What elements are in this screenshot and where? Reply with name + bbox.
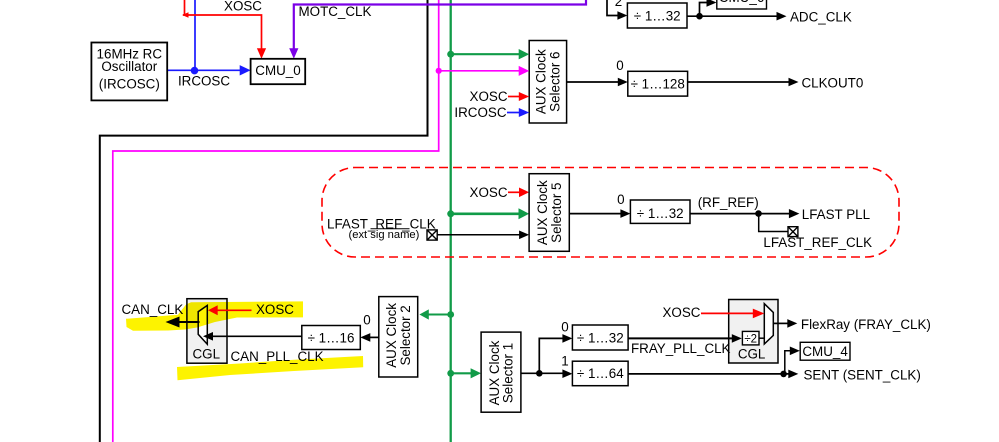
arrow blue into CMU_0 (240, 65, 251, 75)
selector box AUX Clock Selector 2 (379, 297, 418, 377)
wire ext to sel5 (437, 234, 520, 236)
svg-text:÷ 1…16: ÷ 1…16 (308, 331, 355, 346)
wire divider 1..64 out SENT (628, 373, 789, 375)
node junction sel1 output (536, 370, 543, 377)
divider box 1..32 lfast (630, 200, 690, 223)
node junction RF_REF (755, 210, 762, 217)
arrow ADC_CLK (777, 12, 787, 21)
svg-text:0: 0 (617, 192, 624, 207)
svg-text:Selector 2: Selector 2 (398, 305, 413, 365)
highlighter mark over CAN_CLK and XOSC (126, 301, 363, 380)
wire up to divider 1..32 (539, 338, 563, 373)
svg-text:(ext sig name): (ext sig name) (349, 229, 420, 241)
svg-text:÷ 1…128: ÷ 1…128 (631, 76, 685, 91)
svg-text:Selector 1: Selector 1 (501, 343, 516, 403)
selector box AUX Clock Selector 6 (529, 41, 566, 124)
svg-text:FlexRay (FRAY_CLK): FlexRay (FRAY_CLK) (801, 317, 931, 332)
wire: green vertical bus (450, 0, 452, 442)
svg-text:0: 0 (363, 312, 370, 327)
oscillator box 16MHz (91, 43, 167, 101)
svg-text:LFAST_REF_CLK: LFAST_REF_CLK (763, 235, 872, 250)
wire: blue IRCOSC vertical (194, 0, 196, 70)
svg-text:Oscillator: Oscillator (101, 59, 157, 74)
arrow SENT output (788, 370, 798, 379)
svg-text:÷ 1…32: ÷ 1…32 (634, 8, 681, 23)
svg-text:ADC_CLK: ADC_CLK (790, 10, 852, 25)
wire red XOSC into FRAY mux (701, 312, 755, 314)
arrow FlexRay output (787, 319, 797, 328)
arrow purple down into CMU_0 (289, 48, 298, 59)
wire magenta to sel6 (439, 70, 519, 72)
svg-text:CGL: CGL (738, 347, 766, 362)
wire divider to CGL div2 (628, 337, 733, 339)
wire: purple MOTC_CLK (294, 0, 586, 50)
divider box div-by-2 (FRAY CGL) (742, 331, 759, 345)
svg-text:÷ 1…32: ÷ 1…32 (577, 331, 624, 346)
divider box 1..64 (572, 361, 628, 386)
svg-text:AUX Clock: AUX Clock (384, 303, 399, 368)
svg-text:0: 0 (616, 58, 623, 73)
divider box 1..16 (302, 326, 361, 350)
node junction ADC (696, 13, 703, 20)
CMU_0 box (251, 59, 306, 84)
svg-text:(IRCOSC): (IRCOSC) (99, 76, 160, 91)
node junction SENT (780, 371, 787, 378)
svg-text:AUX Clock: AUX Clock (534, 49, 549, 114)
svg-text:÷ 1…64: ÷ 1…64 (577, 366, 624, 381)
mux CAN (left pointing) (198, 305, 207, 344)
arrow into divider 1..64 (562, 369, 572, 378)
node green junction sel2 (447, 311, 454, 318)
wire CLKOUT0 (688, 81, 789, 83)
svg-text:XOSC: XOSC (663, 305, 701, 320)
wire down to ext pad (759, 214, 788, 232)
arrow into divider (617, 11, 627, 20)
node magenta junction (436, 68, 442, 74)
ext pad symbol 2 (788, 227, 798, 237)
svg-text:CMU_0: CMU_0 (255, 63, 300, 78)
svg-text:0: 0 (561, 319, 568, 334)
svg-text:XOSC: XOSC (470, 185, 508, 200)
selector box AUX Clock Selector 1 (481, 332, 521, 412)
divider box 1..32 fray (572, 325, 628, 350)
svg-text:XOSC: XOSC (470, 89, 508, 104)
ext pad symbol (427, 230, 437, 240)
svg-text:÷2: ÷2 (744, 333, 757, 345)
wire up to CMU_4 (785, 351, 791, 374)
svg-text:FRAY_PLL_CLK: FRAY_PLL_CLK (631, 341, 731, 356)
wire mux out FlexRay (773, 322, 788, 324)
svg-text:CLKOUT0: CLKOUT0 (802, 76, 864, 91)
CMU_4 box (800, 342, 850, 360)
wire sel6 out (567, 81, 619, 83)
wire: red XOSC top-left (183, 0, 262, 50)
wire green to sel5 (451, 212, 520, 215)
svg-text:IRCOSC: IRCOSC (178, 74, 230, 89)
wire: magenta bus from top, left, down (113, 0, 439, 442)
wire green to sel2 (leftwards) (428, 313, 451, 315)
CGL box CAN (187, 299, 227, 364)
wire ADC out (687, 15, 778, 17)
arrow into LFAST PLL (789, 209, 800, 218)
svg-text:2: 2 (615, 0, 622, 9)
svg-text:SENT (SENT_CLK): SENT (SENT_CLK) (804, 367, 921, 382)
node green junction sel1 (447, 370, 454, 377)
wire sel2 to divider 1..16 (370, 336, 379, 338)
wire: main black bus from top, left, down (100, 0, 428, 442)
wire lfast pll (690, 213, 789, 215)
wire divider to CGL mux (212, 335, 302, 337)
wire: blue from oscillator to CMU_0 (167, 69, 241, 71)
node green junction lfast (447, 210, 454, 217)
arrow red small left at corner (182, 12, 189, 18)
svg-text:MOTC_CLK: MOTC_CLK (299, 4, 372, 19)
svg-text:÷ 1…32: ÷ 1…32 (637, 206, 684, 221)
wire sel5 out (569, 213, 621, 215)
svg-text:AUX Clock: AUX Clock (487, 340, 502, 405)
svg-text:CMU_4: CMU_4 (802, 344, 848, 359)
arrow into CMU_6 (707, 0, 717, 7)
divider box 1..32 ADC (627, 3, 687, 28)
svg-text:1: 1 (561, 354, 568, 369)
node green junction sel6 (447, 51, 454, 58)
CMU_6 box (cut off at top) (717, 0, 767, 9)
wire green to sel1 (451, 372, 472, 374)
svg-text:CAN_CLK: CAN_CLK (122, 302, 184, 317)
node blue junction (191, 67, 199, 75)
arrow red down into CMU_0 (257, 48, 266, 59)
mux FRAY (right pointing) (764, 304, 773, 344)
svg-text:XOSC: XOSC (224, 0, 262, 14)
wire to CMU_6 (700, 3, 708, 17)
dashed LFAST region (322, 168, 899, 258)
svg-text:IRCOSC: IRCOSC (454, 105, 506, 120)
wire mux out CAN_CLK (178, 321, 200, 323)
svg-text:CMU_6: CMU_6 (719, 0, 764, 5)
svg-text:LFAST PLL: LFAST PLL (802, 207, 870, 222)
wire: ADC input L (607, 0, 618, 16)
wire div2 to mux (759, 337, 764, 339)
svg-text:Selector 5: Selector 5 (549, 183, 564, 243)
svg-text:AUX Clock: AUX Clock (535, 180, 550, 245)
wire sel1 out (521, 372, 563, 374)
CGL box FRAY (729, 300, 778, 364)
svg-text:(RF_REF): (RF_REF) (698, 195, 759, 210)
wire green to sel6 (451, 53, 519, 55)
divider box 1..128 (628, 71, 688, 96)
svg-text:Selector 6: Selector 6 (548, 52, 563, 112)
selector box AUX Clock Selector 5 (529, 174, 569, 252)
svg-text:CGL: CGL (193, 347, 221, 362)
wire red XOSC into CAN mux (217, 309, 252, 311)
